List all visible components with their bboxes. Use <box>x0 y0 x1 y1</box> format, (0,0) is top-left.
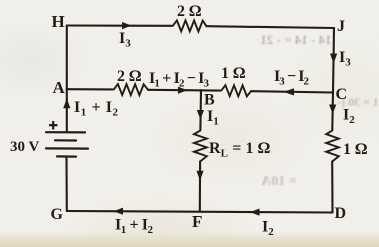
current arrow I2 on right rail below C (pointing down) <box>329 105 336 115</box>
current arrow I1+I2 on bottom rail (pointing left) <box>114 208 124 215</box>
current arrow I1+I2-I3 on middle rail (pointing right) <box>178 87 188 94</box>
svg-text:A: A <box>53 78 66 97</box>
svg-text:G: G <box>51 206 64 223</box>
current arrow I2 on bottom rail (pointing left) <box>250 209 260 216</box>
wire: left rail battery negative plate to G <box>65 157 67 212</box>
node H <box>52 12 65 31</box>
resistor 2ohm (middle rail A-B) <box>112 84 148 95</box>
current label I1+I2 (left rail) <box>74 99 119 119</box>
wire: right rail resistor to D <box>331 162 333 213</box>
wire: branch B to RL resistor <box>199 90 202 129</box>
node G <box>51 206 64 223</box>
value label 1 ohm (right branch resistor) <box>343 141 367 158</box>
current label I3-I2 (middle rail) <box>274 68 310 88</box>
current arrow I3-I2 on middle rail (pointing left) <box>284 88 295 95</box>
wire: right rail J to C <box>333 28 334 93</box>
current label I2 (right rail below C) <box>343 107 355 127</box>
current label I1 (branch B) <box>207 108 219 128</box>
svg-text:1 Ω: 1 Ω <box>343 141 367 158</box>
battery negative short plate <box>57 155 76 157</box>
svg-text:RL = 1 Ω: RL = 1 Ω <box>209 140 270 160</box>
svg-text:14 - 14 = - 21: 14 - 14 = - 21 <box>260 32 331 47</box>
wire: middle rail 1ohm resistor to C <box>251 91 333 92</box>
node D <box>335 205 347 222</box>
svg-text:F: F <box>192 212 202 231</box>
value label 2 ohm (top resistor) <box>177 3 201 20</box>
svg-text:H: H <box>52 12 65 31</box>
battery positive long plate <box>46 131 85 133</box>
battery short plate 2 <box>55 139 76 141</box>
resistor R 2ohm (top rail) <box>171 20 207 31</box>
battery minus sign <box>47 161 56 164</box>
value label 30 V <box>10 139 39 155</box>
wire: branch RL resistor to F <box>199 162 201 212</box>
current label I3 (top rail) <box>119 30 131 50</box>
bleed-through text "1 = 30 (-" (mirrored) <box>337 95 379 109</box>
resistor 1ohm (middle rail B-C) <box>220 85 252 96</box>
wire: middle rail resistor to B to 1ohm resistor <box>148 89 220 92</box>
svg-text:C: C <box>336 86 348 103</box>
svg-text:2 Ω: 2 Ω <box>117 68 141 85</box>
resistor 1ohm (right branch C-D) <box>326 129 339 162</box>
svg-text:= 10A: = 10A <box>260 174 296 189</box>
wire: left rail A to battery positive plate <box>66 89 68 132</box>
current arrow I3 on top rail (pointing right) <box>122 22 132 29</box>
node J <box>337 18 345 35</box>
svg-text:J: J <box>337 18 345 35</box>
current label I1+I2-I3 (middle rail) <box>149 70 210 90</box>
wire: top rail resistor to J <box>207 26 335 28</box>
value label 2 ohm (middle left resistor) <box>117 68 141 85</box>
wire: top rail H to J (left part up to resistor) <box>67 24 171 26</box>
node A <box>53 78 66 97</box>
svg-text:B: B <box>204 92 215 109</box>
bleed-through text "= 10A" (mirrored) <box>260 174 296 189</box>
svg-text:I3 − I2: I3 − I2 <box>274 68 310 88</box>
wire: left rail H to A <box>66 26 68 90</box>
svg-text:I1 + I2 − I3: I1 + I2 − I3 <box>149 70 210 90</box>
battery long plate 3 <box>46 147 88 149</box>
current label I1+I2 (bottom rail) <box>115 217 154 237</box>
current arrow I1 on branch below B (pointing down) <box>197 110 204 120</box>
resistor RL (middle branch B-F) <box>194 129 207 162</box>
svg-text:30 V: 30 V <box>10 139 39 155</box>
node C <box>336 86 348 103</box>
current label I3 (right rail) <box>339 49 351 69</box>
wire: bottom rail G to D <box>67 211 333 213</box>
svg-text:I1 + I2: I1 + I2 <box>115 217 154 237</box>
svg-text:1 Ω: 1 Ω <box>221 65 245 82</box>
wire: right rail C to resistor <box>331 93 334 130</box>
value label 1 ohm (middle right resistor) <box>221 65 245 82</box>
svg-text:D: D <box>335 205 347 222</box>
svg-text:2 Ω: 2 Ω <box>177 3 201 20</box>
node F <box>192 212 202 231</box>
node B <box>204 92 215 109</box>
bleed-through text "14 - 14 = -21" (mirrored) <box>260 32 331 47</box>
current arrow on branch above F (pointing down) <box>196 171 203 181</box>
wire: middle rail A to resistor <box>67 88 112 90</box>
current label I2 (bottom rail) <box>262 219 274 239</box>
value label RL = 1 ohm <box>209 140 270 160</box>
battery plus sign <box>49 121 58 130</box>
current arrow I1+I2 on left rail below A (pointing up) <box>63 99 70 109</box>
current arrow I3 on right rail (pointing down) <box>330 54 337 64</box>
